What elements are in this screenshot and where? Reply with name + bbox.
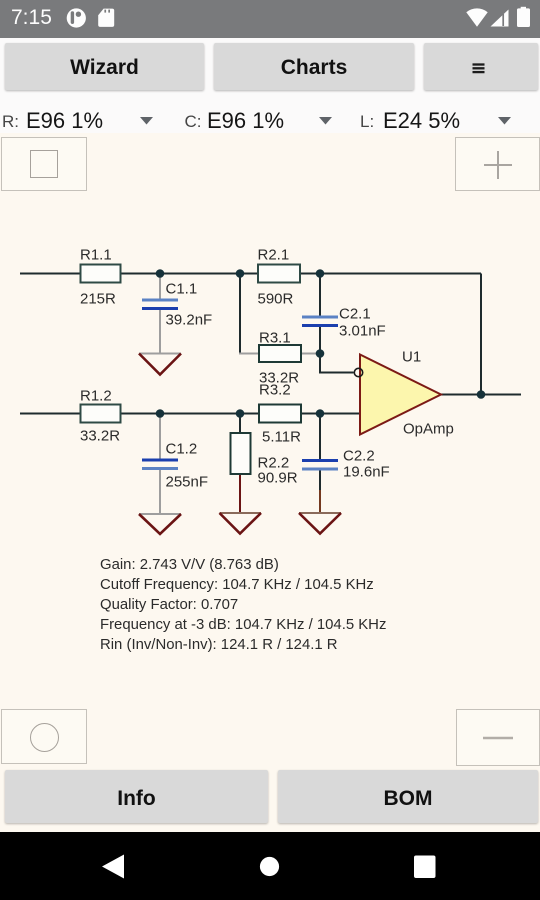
ground under R2.2 (220, 513, 262, 534)
wire R2.2 top lead (239, 414, 241, 434)
svg-text:R1.1: R1.1 (80, 247, 112, 264)
pin C1.1 top (159, 274, 161, 300)
toggle-square button (1, 137, 87, 191)
Info button (5, 770, 268, 823)
battery icon (517, 7, 530, 27)
wire bottom rail to non-inverting input (301, 413, 360, 415)
node R3.1/C2.1 (316, 349, 325, 358)
node bottom C1.2 (156, 409, 165, 418)
wire vertical node to R3.1 (239, 274, 241, 354)
status time (11, 6, 52, 30)
op-amp U1 (354, 349, 454, 438)
junction dots (156, 269, 486, 418)
node top C1.1 (156, 269, 165, 278)
svg-text:3.01nF: 3.01nF (339, 323, 386, 340)
wire top rail R1.1 to R2.1 (121, 273, 258, 275)
wire C2.1 upper lead (319, 274, 321, 317)
wire input top rail (20, 273, 80, 275)
node top R2.1 left (236, 269, 245, 278)
nav home (260, 856, 279, 875)
wire input bottom rail (20, 413, 80, 415)
svg-text:R3.2: R3.2 (259, 382, 291, 399)
capacitor C2.2 (302, 448, 390, 481)
resistor R2.2 (231, 433, 298, 487)
pin C2.2 ground lead (319, 490, 321, 513)
toggle-circle button (1, 709, 87, 764)
menu button (424, 43, 538, 90)
svg-text:215R: 215R (80, 291, 116, 308)
svg-text:33.2R: 33.2R (80, 428, 120, 445)
svg-text:19.6nF: 19.6nF (343, 464, 390, 481)
status left icons (0, 0, 540, 38)
ground under C1.2 (139, 514, 181, 534)
wire bottom rail R1.2 to R3.2 (121, 413, 258, 415)
wire opamp output (441, 394, 521, 396)
pin R3.1 right (301, 353, 321, 355)
pin R2.2 ground lead (239, 474, 241, 513)
spinner row: R (2, 112, 19, 132)
capacitor C2.1 (302, 306, 386, 340)
svg-text:39.2nF: 39.2nF (166, 312, 213, 329)
pin R3.1 left (239, 353, 259, 355)
zoom-in button (455, 137, 540, 191)
sd-card icon (98, 9, 114, 27)
spinner row: L (360, 112, 374, 132)
resistor R1.2 (80, 388, 121, 445)
resistor R3.1 (259, 330, 301, 387)
spinner row: C (185, 112, 202, 132)
svg-text:U1: U1 (402, 349, 421, 366)
white toolbar zone (0, 38, 540, 133)
wire C2.1 lower lead (319, 327, 321, 354)
wire C2.2 upper lead (319, 414, 321, 460)
svg-text:C1.1: C1.1 (166, 281, 198, 298)
navigation bar (0, 832, 540, 900)
wire C2.2 lower lead (319, 470, 321, 490)
svg-text:OpAmp: OpAmp (403, 421, 454, 438)
svg-text:590R: 590R (258, 291, 294, 308)
Wizard button (5, 43, 204, 90)
orientation-lock icon (67, 8, 86, 27)
svg-text:90.9R: 90.9R (258, 470, 298, 487)
resistor R2.1 (258, 247, 301, 308)
wire top feedback horizontal (301, 273, 481, 275)
svg-text:R1.2: R1.2 (80, 388, 112, 405)
wire feedback vertical (480, 274, 482, 395)
node output (477, 390, 486, 399)
ground under C1.1 (139, 354, 181, 375)
svg-text:R2.1: R2.1 (258, 247, 290, 264)
svg-text:C2.2: C2.2 (343, 448, 375, 465)
pin C1.2 bottom (159, 470, 161, 514)
capacitor C1.2 (142, 441, 208, 491)
nav recents (414, 855, 436, 878)
svg-text:5.11R: 5.11R (262, 429, 301, 446)
wifi icon (466, 8, 487, 26)
info text block (100, 555, 386, 655)
nav back (102, 854, 124, 878)
capacitor C1.1 (142, 281, 212, 329)
node bottom C2.2 (316, 409, 325, 418)
ground under C2.2 (299, 513, 341, 534)
node top R2.1 right (316, 269, 325, 278)
BOM button (278, 770, 538, 823)
pin C1.2 top (159, 414, 161, 460)
Charts button (214, 43, 414, 90)
svg-text:C1.2: C1.2 (166, 441, 198, 458)
svg-text:R3.1: R3.1 (259, 330, 291, 347)
svg-text:255nF: 255nF (166, 474, 209, 491)
resistor R1.1 (80, 247, 121, 308)
signal icon (491, 10, 509, 27)
node bottom R2.2 (236, 409, 245, 418)
status bar (0, 0, 540, 38)
resistor R3.2 (259, 382, 301, 446)
wire to inverting input (320, 354, 354, 373)
svg-text:C2.1: C2.1 (339, 306, 371, 323)
pin C1.1 bottom (159, 310, 161, 354)
zoom-out button (456, 709, 540, 766)
